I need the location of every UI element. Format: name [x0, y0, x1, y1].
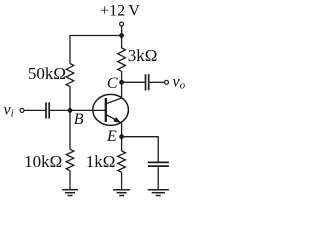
svg-text:10kΩ: 10kΩ — [24, 152, 62, 171]
svg-text:3kΩ: 3kΩ — [128, 46, 158, 65]
ground middle — [113, 190, 130, 196]
wire node E to R4 — [121, 137, 123, 151]
svg-text:E: E — [106, 128, 117, 145]
wire emitter to node E — [121, 123, 123, 137]
wire node C to C2 — [122, 81, 145, 83]
wire C1 to node B — [50, 109, 70, 111]
junction rail dot — [119, 33, 124, 38]
wire rail to R1 — [69, 35, 71, 64]
svg-text:50kΩ: 50kΩ — [28, 64, 66, 83]
wire top rail — [70, 35, 122, 37]
resistor R3 3k zigzag — [118, 48, 126, 71]
node E junction dot — [119, 134, 124, 139]
output terminal — [165, 80, 169, 84]
capacitor C1 plates — [46, 102, 49, 118]
transistor Q1 emitter arrowhead — [113, 117, 121, 123]
svg-text:+12 V: +12 V — [100, 3, 140, 20]
svg-text:1kΩ: 1kΩ — [86, 152, 116, 171]
ground right — [148, 190, 169, 196]
svg-text:C: C — [107, 75, 118, 92]
wire terminal to rail — [121, 26, 123, 35]
wire C3 to ground — [157, 167, 159, 190]
wire R4 to ground — [121, 172, 123, 189]
transistor Q1 circle — [93, 94, 129, 125]
wire R3 to collector — [121, 71, 123, 98]
capacitor C2 plates — [146, 74, 149, 90]
input terminal — [20, 108, 24, 112]
node C junction dot — [119, 80, 124, 85]
transistor Q1 base bar — [105, 98, 107, 122]
wire node B to base — [70, 109, 106, 111]
wire rail dot to R3 — [121, 36, 123, 49]
transistor Q1 collector stroke — [106, 98, 122, 104]
transistor Q1 emitter stroke — [106, 115, 121, 123]
capacitor C3 plates — [148, 162, 169, 166]
wire R2 to ground — [69, 171, 71, 190]
wire bypass corner down to C3 — [157, 136, 159, 162]
+12V supply terminal — [120, 22, 124, 26]
wire R1 to node B — [69, 87, 71, 111]
wire C2 to output terminal — [150, 81, 165, 83]
resistor R2 10k zigzag — [66, 149, 74, 170]
wire node B to R2 — [69, 110, 71, 149]
svg-text:B: B — [74, 111, 84, 128]
wire input to C1 — [24, 109, 45, 111]
node B junction dot — [68, 108, 73, 113]
resistor R1 50k zigzag — [66, 64, 74, 87]
wire node E to bypass branch — [122, 136, 159, 138]
ground left — [62, 190, 78, 196]
resistor R4 1k zigzag — [118, 151, 126, 172]
